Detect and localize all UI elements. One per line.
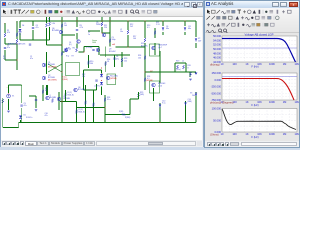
capacitor C7 xyxy=(92,50,94,51)
wire C2 bottom xyxy=(4,50,6,60)
resistor R6 xyxy=(66,48,68,52)
wire C13 drop xyxy=(96,84,98,90)
junction xyxy=(61,101,62,102)
junction xyxy=(144,71,145,72)
right window maximize button xyxy=(280,2,287,7)
wire C6 top xyxy=(162,21,164,26)
svg-text:(W6): (W6) xyxy=(140,94,144,96)
wire R11 bottom xyxy=(101,27,103,33)
resistor R19b xyxy=(183,65,185,69)
resistor R29 xyxy=(85,101,87,105)
phase reference trace xyxy=(222,76,297,78)
junction xyxy=(101,67,102,68)
wire Q4 collector xyxy=(84,46,99,48)
svg-text:47k: 47k xyxy=(7,32,10,34)
resistor R7 xyxy=(76,48,78,52)
wire C9b top xyxy=(21,85,23,103)
svg-text:2N5401: 2N5401 xyxy=(96,24,102,26)
capacitor C8 xyxy=(32,28,34,29)
left title bar xyxy=(1,1,203,8)
wire R12 bottom xyxy=(127,35,129,47)
svg-text:100: 100 xyxy=(232,62,237,66)
resistor R13 xyxy=(144,38,146,42)
svg-text:ph(v(out)) (Degrees): ph(v(out)) (Degrees) xyxy=(210,101,234,105)
wire +V top rail xyxy=(20,20,196,22)
svg-text:(WB): (WB) xyxy=(188,101,192,103)
resistor R8b xyxy=(52,99,54,103)
junction xyxy=(109,20,110,21)
wire driver base link xyxy=(128,46,145,48)
svg-text:24V: 24V xyxy=(192,95,196,97)
junction xyxy=(101,20,102,21)
resistor R11 xyxy=(101,22,103,26)
diode D2 xyxy=(100,82,103,85)
wire -V bottom rail xyxy=(19,122,197,124)
svg-text:R(31.8): R(31.8) xyxy=(68,94,74,96)
wire pre-driver link xyxy=(116,46,129,48)
emitter degeneration box R6/R7 xyxy=(66,63,80,76)
wire bias diode top xyxy=(101,70,103,74)
right title bar xyxy=(205,1,299,8)
plots area xyxy=(205,33,299,141)
svg-text:Q.16: Q.16 xyxy=(158,85,162,87)
resistor Rg xyxy=(2,99,4,103)
svg-text:-250.000: -250.000 xyxy=(211,85,222,89)
svg-text:(C2/T): (C2/T) xyxy=(95,86,100,88)
wire D4 cathode xyxy=(19,33,21,40)
capacitor C4b xyxy=(113,58,115,59)
wire base cross 2 xyxy=(48,64,62,72)
wire C11 top xyxy=(184,21,186,26)
junction xyxy=(16,43,17,44)
svg-text:10M: 10M xyxy=(294,132,299,136)
wire R30 column xyxy=(93,90,95,123)
svg-text:220: 220 xyxy=(104,27,107,29)
svg-text:R(W-6): R(W-6) xyxy=(62,79,68,81)
wire C11 bottom xyxy=(184,32,186,35)
svg-text:47u: 47u xyxy=(45,115,48,117)
junction xyxy=(16,59,17,60)
right window minimize button xyxy=(272,2,279,7)
svg-text:(W2/BB): (W2/BB) xyxy=(110,78,117,80)
svg-text:WAVEFORM-ART-V6: WAVEFORM-ART-V6 xyxy=(8,43,25,46)
transistor Q6b xyxy=(77,40,81,44)
svg-text:1K: 1K xyxy=(245,100,248,104)
wire zobel left xyxy=(174,63,176,72)
svg-text:BLOMB: BLOMB xyxy=(50,97,57,99)
capacitor C5 xyxy=(76,29,78,30)
wire box right xyxy=(79,51,85,53)
junction xyxy=(127,46,128,47)
junction xyxy=(61,44,62,45)
output device box Q7 SM2039DF xyxy=(150,44,160,56)
resistor R27 xyxy=(65,93,67,97)
svg-text:46.000: 46.000 xyxy=(213,56,221,60)
source V1 xyxy=(7,93,11,98)
resistor R24d xyxy=(144,78,146,82)
wire R14 top xyxy=(105,47,107,58)
svg-text:L1: L1 xyxy=(182,61,184,63)
wire R23 branch xyxy=(121,52,123,67)
svg-text:100K: 100K xyxy=(269,132,275,136)
wire Q4 drop xyxy=(83,47,85,53)
resistor R15 xyxy=(109,39,111,43)
wire R11 top xyxy=(101,17,103,22)
wire V2 bottom xyxy=(195,43,197,48)
wire R10 branch xyxy=(88,55,90,68)
wire V3 column xyxy=(195,92,197,123)
svg-text:1k0: 1k0 xyxy=(138,57,141,59)
capacitor C2 xyxy=(4,48,6,49)
resistor R5b xyxy=(61,24,63,28)
ground load xyxy=(189,79,192,81)
device box Q9 xyxy=(107,74,116,85)
capacitor C3 xyxy=(35,100,37,101)
resistor R12 xyxy=(127,30,129,34)
svg-text:R8: R8 xyxy=(45,90,47,92)
junction xyxy=(144,20,145,21)
wire driver column xyxy=(144,43,146,90)
gain curve xyxy=(222,39,296,63)
svg-text:1M: 1M xyxy=(283,100,287,104)
transistor Q11 xyxy=(46,96,50,100)
capacitor C13 xyxy=(95,80,97,81)
resistor R3b xyxy=(16,33,18,37)
svg-text:R19: R19 xyxy=(176,61,179,63)
wire V1 bottom xyxy=(8,99,10,110)
wire Q6 collector xyxy=(76,33,78,40)
resistor R23b xyxy=(121,58,123,62)
svg-text:BD140C: BD140C xyxy=(109,51,116,53)
svg-text:9.1u: 9.1u xyxy=(162,103,166,105)
svg-text:1M: 1M xyxy=(283,132,287,136)
svg-text:1n: 1n xyxy=(88,34,90,36)
svg-text:4.7k: 4.7k xyxy=(80,27,83,29)
svg-text:R7: R7 xyxy=(72,56,74,58)
svg-text:Qp.7: Qp.7 xyxy=(158,47,162,49)
wire bias top link xyxy=(84,69,102,71)
svg-text:0.1: 0.1 xyxy=(147,78,150,80)
wire C3 link xyxy=(29,95,36,97)
resistor RF feedback xyxy=(122,114,126,116)
svg-text:100: 100 xyxy=(232,132,237,136)
wire main vertical bus xyxy=(61,17,63,123)
wire C9 link xyxy=(88,30,100,32)
svg-text:10: 10 xyxy=(221,62,224,66)
capacitor C9b xyxy=(20,105,22,106)
svg-text:(Ohms): (Ohms) xyxy=(210,133,219,137)
junction xyxy=(104,107,105,108)
wire Q1 emitter down xyxy=(46,85,48,95)
wire Q8b column xyxy=(58,92,60,110)
svg-text:(BLOMEV): (BLOMEV) xyxy=(48,80,57,82)
svg-text:R.Q: R.Q xyxy=(66,56,70,58)
svg-text:10M: 10M xyxy=(294,62,299,66)
transistor Q12 xyxy=(57,97,61,101)
svg-text:R.8 47u: R.8 47u xyxy=(26,117,32,119)
wire V2 top xyxy=(195,21,197,37)
svg-text:56.000: 56.000 xyxy=(213,34,221,38)
transistor Q3 xyxy=(96,48,100,52)
svg-text:1K: 1K xyxy=(245,132,248,136)
output device box Q16 SM-2043 xyxy=(150,81,160,93)
transistor Q6 xyxy=(59,30,63,34)
wire bias left xyxy=(83,70,85,90)
transistor Q1 xyxy=(42,63,46,67)
right title icon xyxy=(206,2,210,6)
wire R27 link xyxy=(65,90,67,102)
wire Q6 base link xyxy=(62,34,75,36)
wire input node A xyxy=(20,39,50,41)
svg-text:(D): (D) xyxy=(69,44,72,46)
gain plot frame and grid xyxy=(222,36,297,62)
right window close button xyxy=(289,2,298,7)
battery V3 xyxy=(195,93,197,96)
wire R5 bottom xyxy=(49,27,51,40)
gain plot y-axis labels xyxy=(213,34,221,64)
svg-text:db(mag): db(mag) xyxy=(210,63,220,67)
svg-text:F (Hz): F (Hz) xyxy=(251,135,258,139)
wire node IN2 xyxy=(16,44,18,56)
svg-text:R6: R6 xyxy=(73,48,75,50)
ground C3 xyxy=(35,110,38,112)
wire C8 bottom xyxy=(32,30,34,40)
svg-text:BC546B: BC546B xyxy=(78,89,85,91)
svg-text:68u: 68u xyxy=(166,28,169,30)
resistor R4 xyxy=(46,23,48,27)
wire input column xyxy=(16,56,18,70)
wire VAS drop xyxy=(98,47,100,56)
svg-text:(C2/4B): (C2/4B) xyxy=(86,47,93,49)
resistor R6b xyxy=(42,90,44,94)
wire zobel right xyxy=(185,63,187,72)
right bottom scroll row xyxy=(205,141,299,147)
wire V1 feed xyxy=(9,84,22,86)
phase plot frame and grid xyxy=(222,73,297,100)
capacitor C10 xyxy=(159,105,161,108)
resistor R24b xyxy=(104,98,106,102)
svg-text:(1.2u): (1.2u) xyxy=(176,69,181,71)
wire C6 bottom xyxy=(162,32,164,35)
junction xyxy=(162,20,163,21)
resistor R1 xyxy=(4,33,6,37)
wire R1 top xyxy=(4,23,6,33)
transistor Q16 xyxy=(152,83,156,87)
svg-text:91.u: 91.u xyxy=(107,99,111,101)
wire left edge bottom xyxy=(3,127,19,129)
wire R4 bottom xyxy=(46,28,48,45)
wire feedback drop xyxy=(129,99,131,115)
resistor R14 xyxy=(105,62,107,66)
svg-text:100: 100 xyxy=(133,38,136,40)
svg-text:54.000: 54.000 xyxy=(213,38,221,42)
resistor R20 load xyxy=(190,72,192,76)
junction xyxy=(101,32,102,33)
wire R4 top xyxy=(46,17,48,23)
resistor R24c xyxy=(144,56,146,60)
svg-text:47u: 47u xyxy=(24,105,27,107)
wire R25 drop xyxy=(138,92,140,99)
wire C3 branch xyxy=(35,96,37,108)
svg-text:1k0: 1k0 xyxy=(64,25,67,27)
resistor R8 xyxy=(61,52,63,56)
svg-text:+: + xyxy=(102,73,103,75)
wire Q7 emitter xyxy=(159,51,161,72)
svg-text:Q4: Q4 xyxy=(69,49,71,51)
svg-text:10M: 10M xyxy=(294,100,299,104)
wire load drop xyxy=(189,72,191,77)
svg-text:47u: 47u xyxy=(7,47,10,49)
wire node IN1 xyxy=(5,43,17,45)
wire feedback link xyxy=(105,114,130,116)
resistor R25 xyxy=(138,93,140,97)
wire base cross 1 xyxy=(48,64,62,72)
wire Q6 emitter xyxy=(76,44,78,49)
left window maximize button xyxy=(191,2,197,7)
gain reference trace xyxy=(222,47,297,49)
impedance curve xyxy=(222,109,296,130)
left title text xyxy=(8,1,183,7)
wire R29 column xyxy=(85,85,87,123)
resistor R31 xyxy=(76,110,78,114)
svg-text:od8: od8 xyxy=(112,44,115,46)
transistor Q2 xyxy=(42,76,46,80)
left title icon xyxy=(2,2,6,6)
junction xyxy=(83,51,84,52)
output arrow marker xyxy=(195,73,198,75)
transistor Q8 xyxy=(74,88,78,92)
gain plot x-axis labels xyxy=(221,62,300,66)
wire C9b bottom xyxy=(21,108,23,123)
phase plot x-axis labels xyxy=(221,100,300,104)
svg-text:BLOMB: BLOMB xyxy=(64,98,71,100)
wire C10 column xyxy=(159,103,161,123)
wire VAS node xyxy=(100,54,130,56)
wire Q5 collector rail xyxy=(109,17,111,47)
wire Q16 emitter xyxy=(153,88,155,101)
junction xyxy=(159,122,160,123)
svg-text:47u: 47u xyxy=(30,58,33,60)
svg-text:100.000: 100.000 xyxy=(212,107,222,111)
svg-text:250.000: 250.000 xyxy=(212,71,222,75)
left bottom tab row xyxy=(1,140,203,147)
phase curve xyxy=(222,79,294,101)
svg-text:1.3k: 1.3k xyxy=(52,23,55,25)
transistor Q5 xyxy=(102,33,106,37)
svg-text:(W2/BB): (W2/BB) xyxy=(146,80,153,82)
wire Q7 base xyxy=(154,43,156,55)
wire node C xyxy=(102,32,110,34)
wire zobel top xyxy=(175,62,186,64)
svg-text:1k: 1k xyxy=(19,34,21,36)
wire R14 bottom xyxy=(105,61,107,72)
svg-text:1K: 1K xyxy=(245,62,248,66)
svg-text:10: 10 xyxy=(221,132,224,136)
wire C5 top xyxy=(76,17,78,27)
diode D5 xyxy=(19,116,22,119)
wire lower link 2 xyxy=(77,107,106,109)
wire output line OUT xyxy=(145,71,196,73)
svg-text:1000: 1000 xyxy=(92,42,96,44)
svg-text:2.13: 2.13 xyxy=(156,24,160,26)
svg-text:(BLOMEV): (BLOMEV) xyxy=(48,67,57,69)
wire R21 branch xyxy=(154,28,156,38)
wire C14 column xyxy=(185,101,187,123)
svg-text:-500.000: -500.000 xyxy=(211,91,222,95)
svg-text:V1: V1 xyxy=(12,96,14,98)
battery V2 xyxy=(195,39,197,42)
phase plot y-axis labels xyxy=(211,71,222,102)
wire node IN3 xyxy=(5,59,17,61)
wire Q mirror top xyxy=(47,85,49,95)
svg-text:1M: 1M xyxy=(283,62,287,66)
impedance plot y-axis labels xyxy=(212,107,222,135)
wire R3 branch xyxy=(16,21,18,39)
right toolbars xyxy=(205,8,299,33)
svg-text:8: 8 xyxy=(188,67,189,69)
svg-text:68u: 68u xyxy=(188,28,191,30)
junction xyxy=(101,80,102,81)
svg-text:+: + xyxy=(4,23,5,25)
impedance plot frame and grid xyxy=(222,109,297,133)
svg-text:1k0: 1k0 xyxy=(124,60,127,62)
capacitor C11 xyxy=(184,28,186,31)
svg-text:BC546B: BC546B xyxy=(52,30,59,32)
svg-text:47u: 47u xyxy=(116,58,119,60)
svg-text:47k: 47k xyxy=(3,58,6,60)
capacitor C6 xyxy=(162,28,164,31)
junction xyxy=(76,20,77,21)
junction xyxy=(127,20,128,21)
wire left edge drop xyxy=(2,105,4,128)
junction xyxy=(184,20,185,21)
svg-text:50.000: 50.000 xyxy=(213,118,221,122)
wire C4b branch xyxy=(114,55,116,67)
svg-text:0.1: 0.1 xyxy=(147,27,150,29)
wire D4 anode xyxy=(19,21,21,28)
svg-text:R4: R4 xyxy=(48,19,50,21)
svg-text:R(31.8): R(31.8) xyxy=(79,111,85,113)
svg-text:2k2: 2k2 xyxy=(130,26,133,28)
schematic canvas xyxy=(1,17,202,140)
svg-text:R(W6): R(W6) xyxy=(125,117,131,119)
resistor R10 xyxy=(88,61,90,65)
svg-text:10u: 10u xyxy=(120,31,123,33)
wire left edge rise xyxy=(18,123,20,128)
resistor R30 xyxy=(93,103,95,107)
svg-text:100p: 100p xyxy=(112,39,116,41)
transistor Q7 xyxy=(152,46,156,50)
svg-text:52.000: 52.000 xyxy=(213,43,221,47)
svg-text:560: 560 xyxy=(90,63,93,65)
capacitor C14 xyxy=(184,103,186,106)
svg-text:0.000: 0.000 xyxy=(215,78,222,82)
junction xyxy=(61,20,62,21)
impedance plot x-axis labels xyxy=(221,132,300,136)
left window minimize button xyxy=(184,2,190,7)
capacitor C1 xyxy=(29,44,31,45)
left toolbar xyxy=(1,8,203,17)
left window frame xyxy=(0,0,204,147)
svg-text:100K: 100K xyxy=(269,62,275,66)
resistor R19 xyxy=(177,65,179,69)
wire Rg link xyxy=(2,98,4,105)
right title text xyxy=(211,1,233,6)
wire R5 top xyxy=(49,17,51,22)
wire bias diode bottom xyxy=(101,87,103,96)
left window close button xyxy=(197,2,203,7)
wire driver top xyxy=(144,21,146,38)
